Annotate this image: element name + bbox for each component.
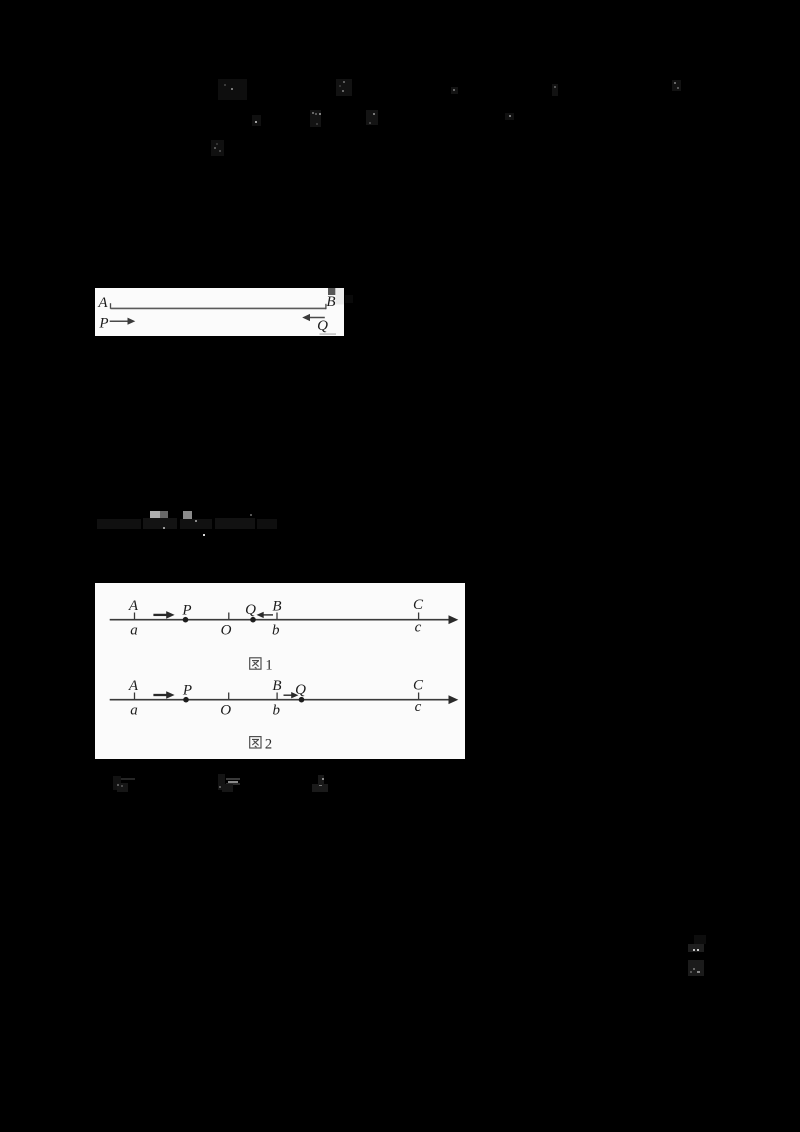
svg-text:C: C (413, 597, 424, 613)
bold arrow fig1 (153, 614, 169, 616)
tick O fig1 (228, 613, 230, 620)
faint glyph cluster 5 (366, 110, 378, 125)
svg-text:2: 2 (265, 736, 272, 752)
point Q fig2 (299, 697, 305, 703)
svg-text:O: O (220, 703, 231, 719)
dark notch top-right corner (328, 288, 335, 295)
faint speck 7 (451, 87, 458, 94)
faint speck 9 (552, 84, 558, 96)
arrow P rightward (110, 320, 132, 322)
bottom-right faint fraction marks (694, 935, 706, 944)
tick c fig2 (418, 693, 420, 700)
bold arrow fig2 (153, 694, 169, 696)
svg-text:c: c (415, 620, 422, 636)
number line 1 (110, 619, 452, 621)
faint glyph cluster 6 (211, 140, 224, 156)
caption 图1 : hand-drawn 图 glyph (250, 658, 261, 669)
caption 图2 : hand-drawn 图 glyph (250, 737, 261, 748)
svg-text:b: b (273, 703, 281, 719)
Q underline (scan artifact) (320, 333, 337, 335)
small right arrow fig2 (284, 694, 295, 696)
right tick (325, 304, 327, 309)
svg-text:a: a (130, 703, 138, 719)
faint top glyph cluster 2 (336, 79, 352, 96)
svg-text:Q: Q (295, 682, 306, 698)
faint lower row group 1 (121, 778, 135, 780)
svg-text:P: P (181, 603, 191, 619)
tick a (134, 613, 136, 620)
point P fig1 (183, 617, 189, 623)
svg-text:Q: Q (245, 602, 256, 618)
svg-text:P: P (98, 316, 108, 332)
faint gray squares mid-page text line (150, 511, 160, 520)
svg-text:A: A (97, 295, 108, 311)
svg-text:P: P (182, 683, 192, 699)
faint speck 8 (505, 113, 514, 120)
svg-text:O: O (221, 623, 232, 639)
left tick (110, 303, 112, 309)
faint top glyph cluster 1 (218, 79, 247, 100)
number line 2 (110, 699, 452, 701)
svg-text:B: B (326, 294, 335, 310)
svg-text:B: B (272, 598, 281, 614)
arrow Q leftward (306, 317, 325, 319)
tick b fig1 (276, 613, 278, 620)
svg-text:a: a (130, 623, 138, 639)
svg-text:1: 1 (265, 658, 272, 674)
figure box 1: segment AB with moving points P and Q (95, 288, 344, 336)
faint glyph cluster 3 (252, 115, 261, 126)
faint dark text band (97, 519, 141, 529)
faint lower row group 2 (218, 774, 225, 790)
faint glyph cluster 4 (310, 110, 321, 127)
tick c fig1 (418, 613, 420, 620)
tick a fig2 (134, 693, 136, 700)
faint patch right of box1 (345, 295, 353, 303)
tick b fig2 (276, 693, 278, 700)
point P fig2 (183, 697, 189, 703)
faint speck 10 (672, 80, 681, 91)
point Q fig1 (250, 617, 256, 623)
svg-text:B: B (272, 678, 281, 694)
tick O fig2 (228, 693, 230, 700)
svg-text:A: A (128, 598, 139, 614)
svg-text:A: A (128, 678, 139, 694)
svg-text:b: b (272, 623, 280, 639)
segment AB (111, 307, 327, 309)
svg-text:C: C (413, 678, 424, 694)
svg-text:Q: Q (317, 318, 328, 334)
small left arrow fig1 (261, 614, 273, 616)
faint lower row group 3 (318, 775, 324, 785)
svg-text:c: c (415, 699, 422, 715)
figure box 2: two number lines 图1 / 图2 (95, 583, 465, 759)
light gray patch right of notch (335, 288, 344, 305)
